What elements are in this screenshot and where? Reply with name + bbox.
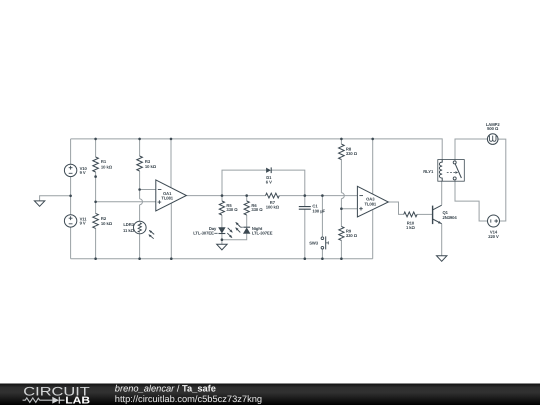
junction LED cathodes ground node <box>221 238 224 241</box>
svg-text:LTL-307EE: LTL-307EE <box>252 230 273 235</box>
wire V11 bottom pin to bottom rail <box>70 227 72 259</box>
wire LED ground stem <box>221 240 223 245</box>
wire OA1 inverting input from R3/LDR3 node <box>140 189 157 191</box>
wire C1 bottom pin to bottom rail <box>304 209 306 258</box>
junction top rail / OA3 V+ <box>371 138 374 141</box>
wire R2 bottom to bottom rail <box>95 228 97 258</box>
wire OA1 non-inverting input from R1/R2 divider <box>96 201 157 203</box>
wire OA3 non-inverting input from R8/R9 divider <box>341 208 358 210</box>
diode D1 <box>266 167 271 173</box>
resistor R9 <box>339 226 344 240</box>
wire hop over OA1 + input wire <box>140 199 143 205</box>
wire SW3 top pin <box>321 196 323 237</box>
svg-text:100 µF: 100 µF <box>312 209 325 214</box>
wire Q1 collector to relay coil <box>441 181 443 205</box>
junction bottom rail / OA1 V- <box>170 257 173 260</box>
junction bottom rail / SW3 <box>321 257 324 260</box>
junction mid wire / R6 <box>245 194 248 197</box>
wire R5 top pin <box>221 196 223 201</box>
svg-text:LAB: LAB <box>65 396 90 405</box>
wire OA3 V- pin to bottom rail <box>372 210 374 259</box>
resistor R6 <box>244 201 249 215</box>
ground (Q1 emitter) <box>437 256 447 262</box>
wire R3 bottom to LDR3 node <box>139 171 141 199</box>
voltage source V14 <box>488 215 500 227</box>
svg-text:330 Ω: 330 Ω <box>346 151 358 156</box>
junction R8/R9 divider to OA3 + <box>340 207 343 210</box>
wire OA3 V+ pin to top rail <box>372 139 374 194</box>
resistor R1 <box>93 157 99 172</box>
svg-text:10 kΩ: 10 kΩ <box>101 221 113 226</box>
svg-text:R2: R2 <box>101 216 107 221</box>
wire Day LED cathode to LED ground node <box>221 234 223 240</box>
svg-text:330 Ω: 330 Ω <box>346 233 358 238</box>
svg-text:9 V: 9 V <box>80 170 86 175</box>
svg-text:10 kΩ: 10 kΩ <box>145 164 157 169</box>
resistor R8 <box>339 144 345 159</box>
wire R10 to Q1 base <box>417 213 433 215</box>
svg-text:9 V: 9 V <box>80 221 86 226</box>
transistor Q1 2N3904 <box>433 205 442 224</box>
wire relay NO contact to V14 minus terminal <box>455 180 488 221</box>
junction bottom rail / C1 <box>304 257 307 260</box>
wire Q1 emitter to ground <box>441 224 443 256</box>
wire R6 bottom to Night LED anode <box>246 215 248 227</box>
voltage source V11 <box>64 215 76 227</box>
wire OA1 output <box>186 195 222 197</box>
wire V10 bottom to V11 top <box>70 177 72 215</box>
wire R1 top pin from rail <box>95 139 97 157</box>
photoresistor LDR3 <box>134 221 155 239</box>
wire R9 bottom to bottom rail <box>340 240 342 258</box>
junction bottom rail / LDR3 <box>138 257 141 260</box>
junction bottom rail / R2 <box>94 257 97 260</box>
wire bottom -9V rail <box>71 258 373 260</box>
junction supply midpoint ground node <box>69 195 72 198</box>
svg-text:330 Ω: 330 Ω <box>251 207 263 212</box>
wire Night LED cathode down and left to ground node <box>222 233 247 239</box>
svg-text:LTL-307EE: LTL-307EE <box>193 230 214 235</box>
relay RLY1 <box>438 160 465 182</box>
junction top rail / R8 <box>340 138 343 141</box>
wire hop over mid wire on R8/R9 branch <box>341 193 344 199</box>
resistor R7 <box>266 193 280 198</box>
wire D1 cathode to C1 node <box>272 170 305 196</box>
svg-text:11 kΩ: 11 kΩ <box>123 228 135 233</box>
wire LDR3 top pin <box>139 205 141 222</box>
wire V10 top pin from rail <box>70 139 72 164</box>
svg-text:220 V: 220 V <box>488 234 499 239</box>
svg-text:RLY1: RLY1 <box>423 169 434 174</box>
svg-text:330 Ω: 330 Ω <box>226 207 238 212</box>
wire OA1 V- pin to bottom rail <box>170 203 172 258</box>
logo resistor zigzag <box>23 398 53 403</box>
junction bottom rail / R9 <box>340 257 343 260</box>
LED Day LTL-307EE <box>214 228 233 239</box>
lamp LAMP2 <box>487 134 498 145</box>
wire OA1 V+ pin to top rail <box>170 139 172 188</box>
svg-text:100 kΩ: 100 kΩ <box>266 205 280 210</box>
svg-text:http://circuitlab.com/c5b5cz73: http://circuitlab.com/c5b5cz73z7kng <box>115 394 262 404</box>
ground (LED cathodes) <box>217 244 227 250</box>
resistor R10 <box>404 212 417 217</box>
svg-text:TL081: TL081 <box>364 201 376 206</box>
wire R8 top pin from rail <box>340 139 342 144</box>
svg-text:LDR3: LDR3 <box>123 222 134 227</box>
wire R8/R9 divider node to R9 top <box>340 199 342 227</box>
svg-text:R3: R3 <box>145 159 151 164</box>
junction top rail / OA1 V+ <box>170 138 173 141</box>
svg-text:TL081: TL081 <box>161 196 173 201</box>
voltage source V10 <box>64 164 76 176</box>
svg-text:1 kΩ: 1 kΩ <box>406 225 416 230</box>
wire relay common pin up to lamp <box>455 139 487 161</box>
resistor R2 <box>93 213 99 228</box>
capacitor C1 <box>299 207 311 210</box>
wire R6 top pin <box>246 196 248 201</box>
wire SW3 bottom pin to bottom rail <box>321 249 323 259</box>
wire D1 branch up and right <box>222 170 266 196</box>
resistor R3 <box>137 156 143 171</box>
junction mid wire / C1 / D1 return <box>304 194 307 197</box>
junction mid wire / SW3 <box>321 194 324 197</box>
junction top rail / R3 <box>138 138 141 141</box>
wire LDR3 bottom pin to bottom rail <box>139 234 141 259</box>
wire lamp to V14 plus terminal <box>498 139 506 221</box>
footer bar <box>0 384 540 405</box>
junction R3/LDR3 node to OA1 - <box>138 188 141 191</box>
wire R3 top pin from rail <box>139 139 141 156</box>
op-amp OA3 TL081 <box>357 186 388 217</box>
op-amp OA1 TL081 <box>156 180 187 211</box>
logo diode symbol <box>52 397 59 404</box>
junction top rail / R1 <box>94 138 97 141</box>
wire R5 bottom to Day LED anode <box>221 215 223 228</box>
svg-text:R1: R1 <box>101 159 107 164</box>
svg-text:6 V: 6 V <box>266 180 272 185</box>
wire R1 bottom to R2 top (divider node) <box>95 172 97 213</box>
switch SW3 <box>321 236 328 249</box>
wire OA3 output to R10 <box>388 202 403 214</box>
resistor R5 <box>219 201 224 215</box>
junction R1 bottom node <box>94 175 97 178</box>
wire top +9V rail to relay coil <box>71 139 443 160</box>
LED Night LTL-307EE <box>235 222 250 234</box>
wire R7 to OA3 inverting input <box>279 195 358 197</box>
junction R1/R2 divider to OA1 + <box>94 201 97 204</box>
ground (left supply midpoint) <box>34 201 44 206</box>
svg-text:SW3: SW3 <box>309 241 319 246</box>
wire ground stub from supply midpoint <box>40 196 71 201</box>
wire R8 bottom down to hop <box>340 160 342 193</box>
wire C1 top pin <box>304 196 306 207</box>
svg-text:500 Ω: 500 Ω <box>487 126 499 131</box>
junction OA1 output / D1 / R5 <box>221 194 224 197</box>
wire OA1 output node to R7 <box>222 195 266 197</box>
svg-text:2N3904: 2N3904 <box>443 215 458 220</box>
svg-text:10 kΩ: 10 kΩ <box>101 164 113 169</box>
svg-text:breno_alencar / Ta_safe: breno_alencar / Ta_safe <box>115 384 216 394</box>
